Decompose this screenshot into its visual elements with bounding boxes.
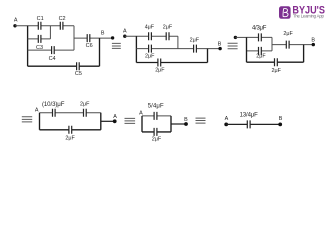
capacitor 2uF bottom circuit 5 bbox=[152, 128, 162, 142]
capacitor 4uF top bbox=[145, 24, 155, 40]
wire middle row circuit 2 bbox=[136, 48, 220, 50]
node A (circuit 3) bbox=[234, 36, 237, 39]
svg-text:B: B bbox=[101, 30, 105, 36]
node A (circuit 1) bbox=[13, 17, 18, 27]
wire C3 row bbox=[28, 38, 51, 40]
svg-text:C1: C1 bbox=[37, 16, 44, 22]
svg-text:C6: C6 bbox=[86, 43, 93, 49]
wire left vertical circuit 1 bbox=[27, 26, 29, 66]
node B (circuit 5) bbox=[184, 117, 188, 126]
wire output circuit 4 bbox=[101, 120, 115, 122]
svg-text:C2: C2 bbox=[59, 16, 66, 22]
wire circuit 6 bbox=[226, 123, 280, 125]
svg-text:C4: C4 bbox=[49, 56, 56, 62]
wire bottom row circuit 4 bbox=[40, 129, 101, 131]
wire bottom row circuit 2 bbox=[136, 62, 207, 64]
capacitor C6 bbox=[86, 34, 93, 49]
BYJU'S logo icon bbox=[279, 6, 291, 18]
node A (circuit 2) bbox=[123, 29, 127, 38]
wire box middle row circuit 3 bbox=[247, 50, 273, 52]
svg-text:13/4μF: 13/4μF bbox=[240, 113, 259, 119]
svg-text:(10/3)μF: (10/3)μF bbox=[42, 101, 65, 108]
wire top row circuit 1 bbox=[15, 25, 74, 27]
wire bottom row circuit 1 bbox=[28, 65, 100, 67]
capacitor 2uF bottom circuit 4 bbox=[65, 126, 75, 142]
equivalence symbol 1 bbox=[112, 43, 121, 48]
wire right vertical circuit 4 bbox=[100, 113, 102, 130]
capacitor 2uF top-right bbox=[163, 24, 173, 40]
wire from A into box circuit 3 bbox=[235, 36, 246, 38]
capacitor 5/4uF bbox=[148, 104, 164, 120]
wire right vertical circuit 1 bbox=[73, 26, 75, 50]
svg-text:2μF: 2μF bbox=[152, 136, 162, 142]
capacitor 13/4uF bbox=[240, 113, 259, 129]
wire left vertical circuit 3 bbox=[246, 37, 248, 62]
wire box top row circuit 4 bbox=[40, 112, 101, 114]
capacitor 2uF box middle bbox=[256, 47, 266, 60]
svg-text:5/4μF: 5/4μF bbox=[148, 104, 164, 110]
svg-text:C5: C5 bbox=[75, 71, 82, 77]
svg-text:4/3μF: 4/3μF bbox=[252, 25, 267, 31]
wire mid vertical circuit 1 bbox=[49, 26, 51, 39]
wire C6 row bbox=[74, 37, 113, 39]
svg-text:A: A bbox=[14, 17, 18, 23]
wire junction vertical circuit 3 bbox=[303, 45, 305, 63]
wire box top row circuit 5 bbox=[142, 115, 171, 117]
wire right vertical circuit 5 bbox=[170, 116, 172, 132]
node B (circuit 3) bbox=[311, 37, 315, 46]
capacitor 2uF bottom circuit 3 bbox=[271, 58, 281, 74]
svg-text:2μF: 2μF bbox=[80, 101, 90, 107]
svg-text:2μF: 2μF bbox=[65, 136, 75, 142]
capacitor 2uF output circuit 3 bbox=[283, 31, 293, 49]
wire left vertical circuit 2 bbox=[135, 36, 137, 62]
svg-text:2μF: 2μF bbox=[155, 68, 165, 74]
wire C4 row bbox=[28, 49, 74, 51]
capacitor C3 bbox=[36, 35, 43, 51]
svg-text:A: A bbox=[35, 107, 39, 113]
svg-text:B: B bbox=[218, 42, 222, 48]
capacitor C5 bbox=[75, 62, 82, 77]
svg-text:The Learning App: The Learning App bbox=[293, 13, 325, 18]
wire box top row circuit 3 bbox=[247, 36, 273, 38]
wire bottom row circuit 5 bbox=[142, 131, 171, 133]
equivalence symbol 4 bbox=[125, 118, 136, 123]
svg-text:B: B bbox=[311, 37, 315, 43]
svg-text:4μF: 4μF bbox=[145, 24, 155, 30]
wire left vertical circuit 5 bbox=[141, 116, 143, 132]
wire bottom row circuit 3 bbox=[247, 61, 304, 63]
capacitor C4 bbox=[49, 46, 56, 62]
capacitor 2uF bottom circuit 2 bbox=[155, 59, 165, 74]
svg-text:2μF: 2μF bbox=[271, 68, 281, 74]
capacitor (10/3)uF bbox=[42, 101, 65, 117]
wire top row circuit 2 bbox=[125, 35, 178, 37]
svg-text:A: A bbox=[113, 114, 117, 120]
wire junction vertical to bottom circuit 1 bbox=[99, 38, 101, 66]
node A (circuit 6) bbox=[224, 116, 228, 126]
equivalence symbol 3 bbox=[22, 117, 32, 122]
svg-text:B: B bbox=[184, 117, 188, 123]
wire output circuit 5 bbox=[171, 123, 186, 125]
wire junction vertical circuit 2 bbox=[207, 49, 209, 63]
svg-text:A: A bbox=[123, 29, 127, 35]
capacitor 2uF top circuit 4 bbox=[80, 101, 90, 116]
svg-text:B: B bbox=[279, 116, 283, 122]
capacitor 4/3uF bbox=[252, 25, 267, 41]
wire box right vertical circuit 3 bbox=[271, 37, 273, 51]
svg-text:2μF: 2μF bbox=[190, 37, 200, 43]
node B (circuit 2) bbox=[218, 42, 222, 51]
svg-text:2μF: 2μF bbox=[145, 53, 155, 59]
svg-text:2μF: 2μF bbox=[163, 24, 173, 30]
wire corner down from top row circuit 2 bbox=[177, 36, 179, 48]
equivalence symbol 5 bbox=[196, 118, 206, 123]
wire output row circuit 3 bbox=[272, 44, 313, 46]
wire left vertical circuit 4 bbox=[39, 113, 41, 130]
capacitor C1 bbox=[37, 16, 44, 30]
node B (circuit 1) bbox=[101, 30, 114, 39]
node B (circuit 6) bbox=[278, 116, 282, 126]
svg-text:A: A bbox=[225, 116, 229, 122]
capacitor C2 bbox=[59, 16, 66, 30]
node A right (circuit 4) bbox=[113, 114, 117, 123]
svg-text:2μF: 2μF bbox=[283, 31, 293, 37]
capacitor 2uF middle-left bbox=[145, 45, 155, 60]
svg-text:2μF: 2μF bbox=[256, 54, 266, 60]
capacitor 2uF middle-right bbox=[190, 37, 200, 52]
equivalence symbol 2 bbox=[228, 43, 238, 49]
